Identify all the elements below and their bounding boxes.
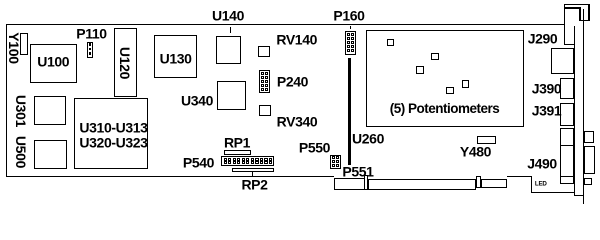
J490 jackscrew lower: [584, 178, 593, 186]
connector J490 body: [560, 128, 575, 184]
label Y480: [460, 143, 491, 159]
label P110: [76, 25, 106, 41]
IC U140: [216, 36, 241, 65]
edge notch: [364, 175, 368, 191]
label RP1: [224, 135, 250, 151]
connector J390: [560, 78, 574, 100]
P160 pins: [347, 33, 350, 36]
label U260: [352, 131, 384, 147]
header P160: [345, 31, 357, 55]
P540 pins row1: [224, 158, 227, 161]
bracket left rail: [574, 26, 575, 196]
edge key finger: [476, 176, 481, 189]
pot square 3: [416, 66, 424, 74]
label J391: [532, 103, 562, 119]
IC U340: [217, 81, 246, 110]
bracket top tab notch vertical: [583, 9, 584, 21]
U140 pointer tick: [230, 27, 231, 33]
pot square 1: [387, 39, 394, 46]
J490 divider upper: [560, 145, 574, 146]
bracket bottom step: [574, 195, 584, 196]
label (5) Potentiometers: [390, 101, 500, 116]
board edge segment right of fingers: [507, 176, 532, 177]
resistor pack RP1 (bar): [224, 150, 252, 155]
J490 divider lower: [560, 176, 575, 177]
bracket top tab top edge: [564, 4, 590, 5]
bracket top tab inner vertical: [579, 7, 580, 21]
J290 shelf line: [564, 44, 576, 45]
label Y100 (rotated): [6, 32, 22, 64]
label P550: [299, 139, 330, 155]
trimmer RV140: [258, 46, 270, 58]
resistor pack RP2 (bar): [232, 168, 274, 172]
pot square 4: [462, 80, 469, 88]
label U301 (rotated): [13, 95, 29, 127]
label U340: [181, 92, 213, 108]
bracket top tab right edge: [588, 4, 589, 22]
board right edge: [564, 4, 565, 45]
P110 pin 1: [89, 43, 91, 45]
pot square 5: [446, 87, 454, 94]
P540 pins row2: [224, 161, 227, 164]
label J490: [527, 155, 557, 171]
bracket top tab bottom edge: [579, 20, 589, 21]
label RV340: [277, 114, 318, 130]
label RV140: [276, 31, 317, 47]
IC U100: [30, 44, 77, 84]
label P240: [277, 74, 308, 90]
header P550: [330, 155, 341, 169]
label RP2: [241, 177, 267, 193]
IC U500: [34, 140, 67, 169]
P110 pin 2: [89, 48, 91, 50]
P110 pin 3: [89, 52, 91, 54]
IC U120: [114, 28, 137, 97]
label P551: [342, 163, 373, 179]
header P110: [87, 42, 93, 58]
board outline top edge: [6, 24, 564, 25]
board outline left edge: [6, 24, 7, 177]
label U120 (rotated): [117, 46, 133, 78]
label U310-U313: [79, 120, 147, 136]
edge tab P551: [334, 178, 365, 191]
RP2 pointer tick: [252, 172, 254, 176]
label P540: [183, 155, 214, 171]
resistor network U260 (bar): [348, 58, 351, 165]
label U500 (rotated): [13, 136, 29, 168]
edge connector finger section 2: [481, 179, 507, 188]
board edge step down: [531, 176, 532, 192]
bracket right rail: [583, 21, 584, 204]
J490 jackscrew upper: [584, 131, 594, 143]
connector J391: [560, 103, 574, 127]
label U320-U323: [79, 135, 147, 151]
header P240: [259, 70, 270, 93]
crystal Y100: [20, 33, 28, 55]
trimmer RV340: [259, 105, 271, 116]
pot square 2: [431, 53, 439, 60]
board outline bottom edge: [6, 176, 334, 177]
label J390: [532, 81, 562, 97]
IC U301: [34, 96, 66, 125]
label U130: [160, 50, 192, 66]
P160 pointer tick: [350, 26, 351, 29]
IC U130: [154, 35, 198, 79]
label U140: [212, 7, 244, 23]
edge connector finger section 1: [368, 179, 476, 190]
J490 shell: [584, 146, 596, 175]
P550 pins: [332, 156, 335, 159]
potentiometer area box: [366, 30, 524, 127]
label U100: [37, 53, 69, 69]
label J290: [528, 31, 558, 47]
label P160: [333, 7, 364, 23]
bracket top tab inner edge: [564, 7, 580, 8]
P240 pins: [261, 72, 264, 75]
header P540: [221, 156, 274, 166]
board bottom edge right segment: [531, 192, 575, 193]
crystal Y480: [477, 136, 496, 145]
IC bank U310-U313 U320-U323: [74, 98, 149, 169]
label LED: [535, 181, 547, 188]
connector J290: [551, 48, 575, 74]
